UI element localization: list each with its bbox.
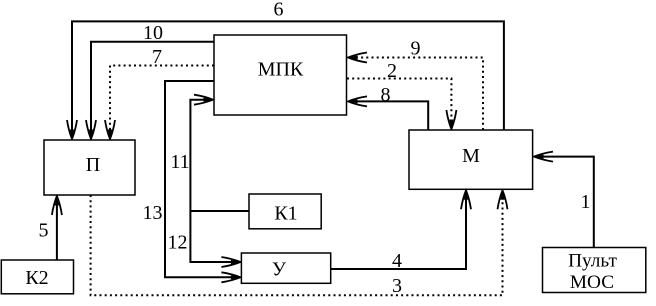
- svg-text:П: П: [86, 154, 100, 176]
- svg-text:8: 8: [381, 84, 391, 106]
- svg-text:Пульт: Пульт: [568, 251, 617, 272]
- svg-text:К2: К2: [25, 267, 48, 289]
- svg-text:К1: К1: [274, 203, 297, 225]
- svg-text:2: 2: [387, 60, 397, 82]
- svg-text:М: М: [462, 145, 480, 167]
- svg-text:1: 1: [581, 191, 591, 213]
- svg-text:12: 12: [168, 232, 188, 254]
- svg-text:9: 9: [411, 38, 421, 60]
- svg-text:4: 4: [392, 250, 402, 272]
- svg-text:5: 5: [39, 220, 49, 242]
- svg-text:7: 7: [152, 46, 162, 68]
- svg-text:10: 10: [143, 22, 163, 44]
- svg-text:11: 11: [170, 151, 189, 173]
- svg-text:6: 6: [274, 0, 284, 21]
- svg-text:13: 13: [143, 202, 163, 224]
- svg-text:МПК: МПК: [258, 59, 304, 81]
- svg-text:3: 3: [392, 275, 402, 297]
- svg-text:МОС: МОС: [570, 272, 614, 293]
- svg-text:У: У: [272, 259, 287, 281]
